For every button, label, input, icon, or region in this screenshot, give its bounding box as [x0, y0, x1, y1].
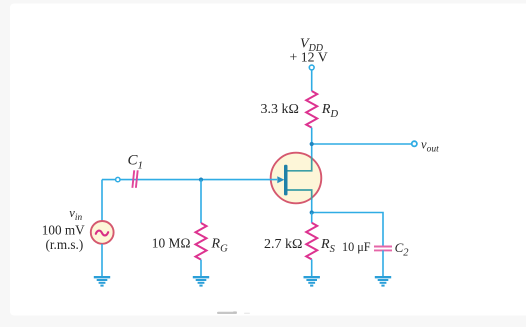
terminal vout (open circle) — [412, 141, 417, 146]
wire: gate wire from C1 to JFET — [102, 179, 277, 181]
wire: input corner down to AC source — [101, 180, 103, 221]
node: drain junction dot — [310, 142, 314, 146]
svg-text:10 MΩ: 10 MΩ — [152, 236, 191, 251]
resistor RG (10 Mohm) zigzag — [196, 223, 207, 260]
svg-text:3.3 kΩ: 3.3 kΩ — [261, 102, 299, 117]
wire: gate junction down to RG — [200, 180, 202, 223]
transistor drain lead — [288, 157, 312, 171]
wire: RG to ground — [200, 260, 202, 277]
node: gate junction dot — [199, 178, 203, 182]
node: source junction dot — [310, 210, 314, 214]
svg-text:2.7 kΩ: 2.7 kΩ — [264, 237, 302, 252]
wire: RS to ground — [311, 259, 313, 277]
transistor JFET channel bar — [284, 165, 288, 196]
wire: VDD terminal down to RD top — [311, 70, 313, 92]
ground under RG — [193, 277, 209, 285]
svg-text:100 mV: 100 mV — [42, 222, 85, 237]
transistor gate arrow — [277, 176, 284, 183]
terminal VDD (open circle) — [309, 65, 314, 70]
transistor Q1 JFET body circle — [271, 153, 322, 204]
resistor RD (3.3 kohm) zigzag — [306, 91, 317, 128]
AC source tilde — [96, 231, 108, 236]
wire: RD bottom to drain node, continues into JFET — [311, 128, 313, 213]
wire: junction down to RS — [311, 213, 313, 223]
svg-text:(r.m.s.): (r.m.s.) — [46, 237, 84, 252]
ground under C2 — [375, 277, 391, 285]
figure caption remnant (cut off) — [217, 312, 237, 314]
capacitor C1 plates (slanted) — [132, 170, 134, 188]
wire: C2 to ground — [382, 250, 384, 277]
AC source vin circle — [91, 221, 114, 244]
capacitor C2 plates — [374, 246, 392, 248]
resistor RS (2.7 kohm) zigzag — [306, 223, 317, 260]
ground under RS — [304, 277, 320, 285]
wire: AC source to ground — [101, 244, 103, 277]
terminal: input open circle — [116, 177, 120, 181]
wire: drain node to vout — [312, 143, 414, 145]
transistor source lead — [288, 190, 312, 200]
ground under source — [94, 277, 110, 285]
svg-text:+ 12 V: + 12 V — [290, 50, 328, 65]
wire: source node to RS and C2 branch — [312, 213, 383, 247]
svg-text:10 μF: 10 μF — [342, 240, 371, 254]
